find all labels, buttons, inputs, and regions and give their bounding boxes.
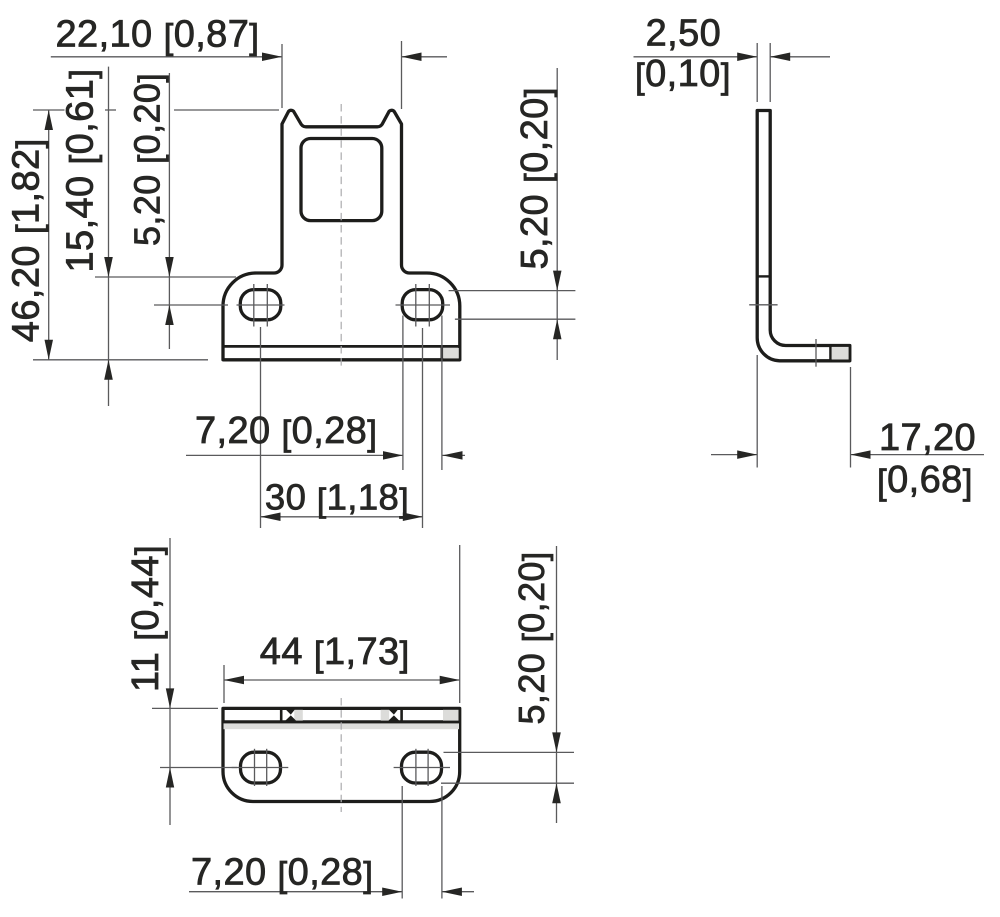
dim 30 dimension line xyxy=(261,516,423,518)
dim 46,20 extension line bottom xyxy=(33,359,208,361)
dim 15,40 label xyxy=(60,69,103,273)
dim 17,20 dimension line xyxy=(711,454,984,456)
svg-text:46,20 [​1,82]​: 46,20 [​1,82]​ xyxy=(6,138,49,342)
dim 7,20 front arrow left xyxy=(383,451,403,460)
dim 7,20 front dimension line xyxy=(186,454,465,456)
dim 5,20 right label xyxy=(514,87,557,269)
dim 44 label xyxy=(260,631,410,674)
dim 5,20 right dimension line xyxy=(556,68,558,360)
side view hole center crosshair horizontal xyxy=(749,304,777,306)
dim 11 extension line bottom xyxy=(160,767,237,769)
dim 7,20 bottom arrow left xyxy=(382,888,402,897)
dim 15,40 arrow bottom xyxy=(104,360,113,380)
svg-text:7,20 [​0,28]​: 7,20 [​0,28]​ xyxy=(191,851,373,894)
dim 17,20 arrow right xyxy=(851,450,871,459)
dim 5,20 left arrow bottom xyxy=(165,305,174,325)
dim 7,20 front arrow right xyxy=(443,451,463,460)
dim 11 dimension line xyxy=(169,538,171,825)
dim 30 arrow left xyxy=(261,513,281,522)
side view L-profile outline xyxy=(757,111,850,361)
dim 5,20 right arrow top xyxy=(553,271,562,291)
bottom view vertical centerline xyxy=(340,698,342,812)
dim 11 arrow top xyxy=(166,688,174,708)
front view gray pad fill xyxy=(443,348,459,358)
dim 7,20 front label xyxy=(195,410,377,453)
front view right slot hole xyxy=(402,290,443,320)
front view gray pad left edge line xyxy=(440,345,443,361)
dim 15,40 arrow top xyxy=(104,257,113,277)
dim 5,20 left dimension line xyxy=(168,73,170,349)
bottom view inner edge line xyxy=(223,720,460,723)
bottom view right stem section line xyxy=(400,708,403,722)
dim 2,50 extension line right xyxy=(769,43,771,102)
dim 22,10 arrow left xyxy=(262,53,282,62)
dim 44 extension line right xyxy=(459,545,461,703)
bottom view outline xyxy=(223,708,460,801)
dim 5,20 bottom ext line top xyxy=(444,751,575,753)
dim 7,20 front ext line right xyxy=(441,316,443,471)
svg-text:5,20 [​0,20]​: 5,20 [​0,20]​ xyxy=(514,87,557,269)
dim 5,20 right extension line top xyxy=(449,290,576,292)
dim 5,20 bottom arrow bottom xyxy=(552,783,561,803)
front view bottom strip line xyxy=(223,345,460,348)
front view left slot hole xyxy=(240,290,280,320)
dim 17,20 label line2 xyxy=(877,459,973,502)
dim 44 arrow right xyxy=(440,676,460,684)
svg-text:44 [​1,73]​: 44 [​1,73]​ xyxy=(260,631,410,674)
dim 22,10 arrow right xyxy=(402,53,422,62)
front view bracket outer outline xyxy=(223,110,460,360)
dim 2,50 label line1 xyxy=(646,13,722,55)
bottom view left hole crosshair xyxy=(232,749,289,786)
dim 5,20 right arrow bottom xyxy=(553,319,562,339)
dim 7,20 bottom ext line right xyxy=(441,786,443,899)
bottom view right prong tip profile xyxy=(388,710,399,721)
dim 22,10 dimension line xyxy=(51,56,447,58)
dim 22,10 extension line right xyxy=(401,41,403,109)
side view gray pad left edge line xyxy=(829,344,831,362)
svg-text:30 [​1,18]​: 30 [​1,18]​ xyxy=(265,477,409,520)
bottom view right slot hole xyxy=(402,752,442,783)
dim 30 arrow right xyxy=(403,513,423,522)
bottom view left stem section line xyxy=(280,708,283,722)
dim 46,20 arrow top xyxy=(45,110,54,130)
bottom view right hole crosshair xyxy=(394,749,450,786)
dim 7,20 front ext line left xyxy=(402,316,404,471)
front view square hole xyxy=(301,139,382,221)
svg-text:5,20 [​0,20]​: 5,20 [​0,20]​ xyxy=(126,73,169,246)
front view vertical centerline xyxy=(340,104,342,368)
dim 15,40 dimension line xyxy=(108,67,110,406)
dim 46,20 extension line top xyxy=(33,109,279,111)
svg-text:5,20 [​0,20]​: 5,20 [​0,20]​ xyxy=(511,552,554,725)
side view bend line xyxy=(757,275,770,277)
dim 5,20 bottom arrow top xyxy=(552,732,561,752)
svg-text:15,40 [​0,61]​: 15,40 [​0,61]​ xyxy=(60,69,103,273)
svg-text:22,10 [​0,87]​: 22,10 [​0,87]​ xyxy=(56,14,260,57)
dim 5,20 bottom label xyxy=(511,552,554,725)
dim 7,20 bottom arrow right xyxy=(442,888,462,897)
dim 2,50 arrow right xyxy=(770,53,790,62)
dim 17,20 arrow left xyxy=(737,450,757,459)
dim 2,50 extension line left xyxy=(756,43,758,102)
dim 7,20 front left hole center ext line xyxy=(260,327,262,528)
bottom view gray patch right end xyxy=(443,710,459,721)
dim 5,20 left label xyxy=(126,73,169,246)
dim 17,20 label line1 xyxy=(879,417,976,459)
dim 2,50 label line2 xyxy=(635,53,731,96)
side view gray pad fill xyxy=(832,347,849,360)
dim 5,20 right extension line bottom xyxy=(455,318,576,320)
dim 7,20 bottom dimension line xyxy=(189,891,474,893)
dim 7,20 bottom label xyxy=(191,851,373,894)
dim 17,20 extension line left xyxy=(756,355,758,468)
side view hole center crosshair vertical xyxy=(815,339,817,367)
bottom view left prong tip profile xyxy=(285,710,296,721)
dim 2,50 dimension line xyxy=(634,56,831,58)
dim 46,20 dimension line xyxy=(48,110,50,360)
dim 2,50 arrow left xyxy=(737,53,757,62)
svg-text:[​0,10]​: [​0,10]​ xyxy=(635,53,731,96)
dim 15,40 extension line xyxy=(95,276,236,278)
dim 44 arrow left xyxy=(224,676,244,684)
dim 5,20 left arrow top xyxy=(165,257,174,277)
dim 5,20 bottom dimension line xyxy=(556,546,558,823)
svg-text:7,20 [​0,28]​: 7,20 [​0,28]​ xyxy=(195,410,377,453)
dim 22,10 extension line left xyxy=(281,44,283,108)
dim 11 arrow bottom xyxy=(166,768,174,788)
dim 5,20 left extension line xyxy=(154,304,228,306)
dim 11 label xyxy=(125,545,168,692)
dim 17,20 extension line right xyxy=(850,367,852,468)
bottom view gray patch right stem xyxy=(381,710,390,721)
dim 11 extension line top xyxy=(152,707,218,709)
dim 7,20 bottom ext line left xyxy=(401,786,403,899)
svg-text:[​0,68]​: [​0,68]​ xyxy=(877,459,973,502)
dim 30 label xyxy=(265,477,409,520)
front view right hole crosshair xyxy=(396,284,451,327)
svg-text:2,50: 2,50 xyxy=(646,13,722,55)
bottom view gray patch left of stem xyxy=(294,710,303,721)
dim 44 extension line left xyxy=(223,665,225,703)
svg-text:17,20: 17,20 xyxy=(879,417,976,459)
svg-text:11 [​0,44]​: 11 [​0,44]​ xyxy=(125,545,168,692)
dim 46,20 arrow bottom xyxy=(45,340,54,360)
dim 22,10 label xyxy=(56,14,260,57)
dim 44 dimension line xyxy=(224,679,460,681)
front view left hole crosshair xyxy=(237,284,285,327)
bottom view gray shadow band xyxy=(224,723,460,729)
dim 5,20 bottom ext line bottom xyxy=(441,782,574,784)
dim 7,20 front hole center ext line xyxy=(422,328,424,528)
bottom view left slot hole xyxy=(241,752,281,783)
dim 46,20 label xyxy=(6,138,49,342)
